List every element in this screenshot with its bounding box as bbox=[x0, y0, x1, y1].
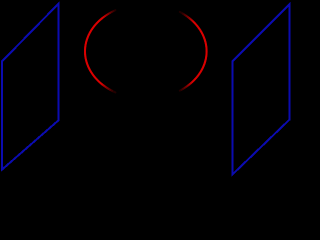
left plate (blue parallelogram) bbox=[2, 4, 58, 170]
red ring (ellipse, brightness fades to black at top and bottom) bbox=[85, 10, 207, 92]
right plate (blue parallelogram) bbox=[232, 4, 289, 175]
